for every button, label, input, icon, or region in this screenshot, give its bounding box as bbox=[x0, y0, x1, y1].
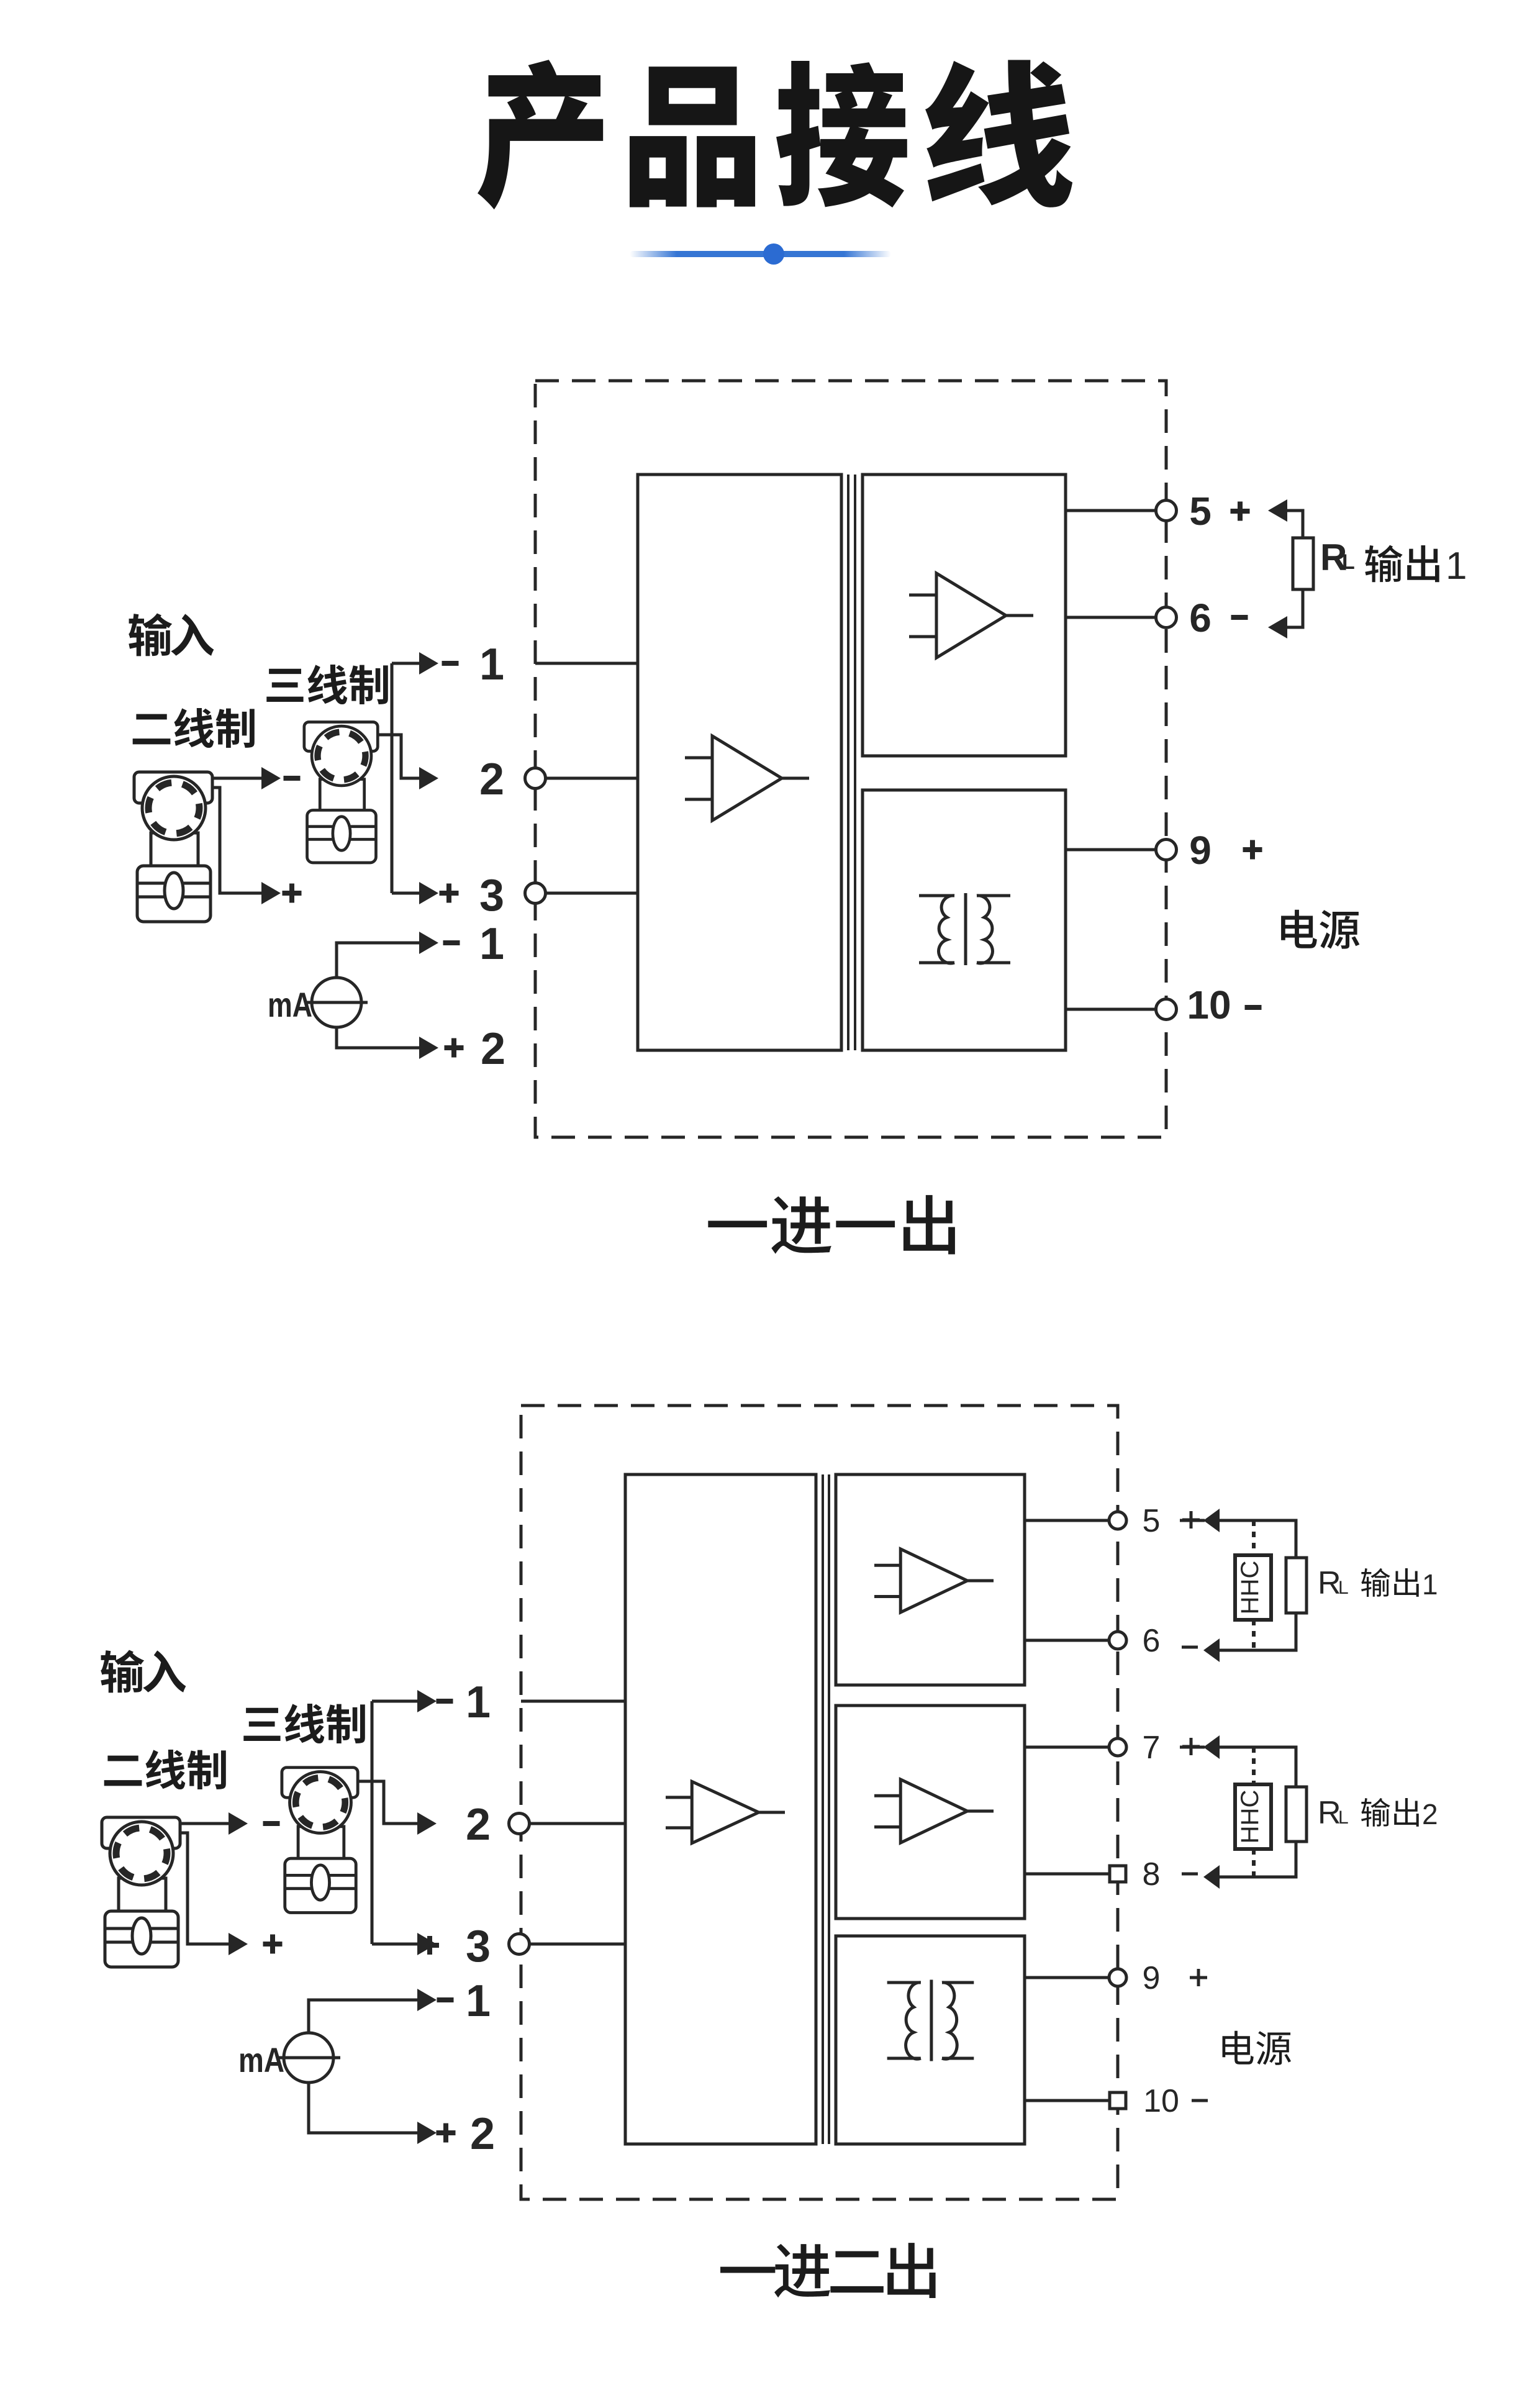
arrow output1 plus (upper) bbox=[1268, 499, 1287, 522]
arrow lead2 bbox=[419, 767, 438, 789]
terminal 2 circle (upper) bbox=[525, 768, 546, 789]
title char 品 bbox=[630, 66, 755, 207]
wire three-wire lead1 (lower) bbox=[372, 1700, 419, 1703]
plus sign lead3 bbox=[440, 891, 459, 896]
wire terminal3 to input block bbox=[535, 892, 638, 895]
transformer power isolation (lower) bbox=[887, 1979, 974, 2061]
plus sign two-wire bbox=[283, 891, 302, 896]
svg-text:1: 1 bbox=[466, 1976, 491, 2026]
arrow two-wire plus (lower) bbox=[229, 1933, 248, 1955]
mA current source circle (upper) bbox=[306, 978, 368, 1027]
upper isolator dashed enclosure bbox=[535, 381, 1166, 1137]
svg-text:2: 2 bbox=[1422, 1798, 1438, 1830]
svg-text:8: 8 bbox=[1143, 1856, 1161, 1892]
blue divider dot bbox=[763, 243, 784, 265]
wire three-wire lead 2 bbox=[376, 735, 420, 778]
arrow lead3 (lower) bbox=[417, 1933, 437, 1955]
terminal 5 circle (upper) bbox=[1156, 501, 1177, 521]
op-amp input stage (lower) bbox=[666, 1781, 785, 1843]
wire three-wire transmitter bus bbox=[391, 663, 394, 893]
wire mA source bottom lead bbox=[337, 1027, 420, 1048]
op-amp output1 stage (lower) bbox=[874, 1549, 994, 1612]
plus mA (lower) bbox=[437, 2130, 456, 2135]
title char 线 bbox=[925, 60, 1072, 207]
svg-text:L: L bbox=[1342, 550, 1355, 574]
upper input amplifier block bbox=[638, 475, 841, 1050]
svg-text:7: 7 bbox=[1143, 1730, 1161, 1766]
terminal 6 circle (upper) bbox=[1156, 607, 1177, 628]
label 二线制 two-wire (upper) bbox=[133, 708, 255, 748]
arrow mA minus (lower) bbox=[417, 1989, 437, 2011]
blue divider line bbox=[630, 251, 891, 257]
wire terminal2 to block (lower) bbox=[521, 1822, 625, 1825]
svg-text:mA: mA bbox=[268, 985, 312, 1024]
wire three-wire lead3 (lower) bbox=[372, 1943, 419, 1946]
terminal 9 circle (upper) bbox=[1156, 840, 1177, 860]
minus two-wire (lower) bbox=[263, 1821, 280, 1826]
upper power block bbox=[863, 790, 1066, 1050]
plus terminal7 (lower) bbox=[1182, 1745, 1200, 1748]
svg-text:1: 1 bbox=[479, 640, 504, 689]
arrow output1 plus (lower) bbox=[1203, 1509, 1220, 1532]
svg-text:1: 1 bbox=[1446, 545, 1467, 588]
wire output1 load bottom (lower) bbox=[1220, 1613, 1296, 1650]
wire block to terminal 9 (lower) bbox=[1025, 1976, 1118, 1979]
title char 产 bbox=[478, 60, 603, 209]
minus sign lead1 bbox=[442, 661, 459, 666]
terminal 5 circle (lower) bbox=[1109, 1512, 1126, 1529]
arrow output1 minus (lower) bbox=[1203, 1638, 1220, 1662]
plus terminal5 (lower) bbox=[1182, 1519, 1200, 1522]
wire output1 load top bbox=[1284, 511, 1303, 538]
label 三线制 three-wire (lower) bbox=[243, 1704, 365, 1743]
wire block to terminal 8 (lower) bbox=[1025, 1873, 1118, 1876]
svg-text:1: 1 bbox=[466, 1678, 491, 1727]
svg-text:10: 10 bbox=[1143, 2083, 1179, 2119]
svg-text:2: 2 bbox=[466, 1800, 491, 1850]
plus sign terminal5 bbox=[1231, 509, 1250, 514]
wire output2 load top (lower) bbox=[1220, 1747, 1296, 1787]
wire output2 load bottom (lower) bbox=[1220, 1842, 1296, 1877]
arrow mA plus bbox=[419, 1037, 438, 1059]
minus mA (lower) bbox=[437, 1997, 454, 2002]
terminal 8 square (lower) bbox=[1110, 1866, 1126, 1882]
terminal 3 circle (upper) bbox=[525, 883, 546, 904]
terminal 6 circle (lower) bbox=[1109, 1632, 1126, 1649]
wire terminal2 to input block bbox=[535, 777, 638, 780]
svg-text:3: 3 bbox=[479, 871, 504, 920]
op-amp output2 stage (lower) bbox=[874, 1779, 994, 1843]
arrow output2 plus (lower) bbox=[1203, 1735, 1220, 1759]
wire output1 load top (lower) bbox=[1220, 1520, 1296, 1558]
label 二线制 two-wire (lower) bbox=[104, 1750, 226, 1789]
wire block to terminal 6 (lower) bbox=[1025, 1639, 1118, 1642]
minus sign two-wire bbox=[284, 776, 301, 781]
transformer power isolation (upper) bbox=[919, 893, 1010, 965]
terminal 9 circle (lower) bbox=[1109, 1969, 1126, 1986]
terminal 3 circle (lower) bbox=[509, 1934, 530, 1955]
wire block to terminal 7 (lower) bbox=[1025, 1746, 1118, 1749]
minus sign terminal10 bbox=[1245, 1005, 1262, 1010]
caption 一进一出 one-in-one-out bbox=[708, 1195, 955, 1254]
wire two-wire transmitter minus lead bbox=[212, 777, 263, 780]
wire mA source top lead bbox=[337, 943, 420, 978]
svg-text:2: 2 bbox=[481, 1024, 505, 1074]
op-amp input stage (upper) bbox=[685, 736, 809, 820]
wire mA top lead (lower) bbox=[309, 2000, 419, 2033]
wire power block to terminal 9 bbox=[1066, 848, 1166, 852]
terminal 10 circle (upper) bbox=[1156, 999, 1177, 1020]
arrow lead2 (lower) bbox=[417, 1812, 437, 1835]
arrow lead3 bbox=[419, 882, 438, 904]
svg-text:6: 6 bbox=[1143, 1623, 1161, 1659]
label 输入 input (upper) bbox=[129, 613, 214, 656]
three-wire transmitter (lower) bbox=[282, 1768, 358, 1913]
svg-text:10: 10 bbox=[1187, 983, 1231, 1027]
plus terminal9 (lower) bbox=[1190, 1976, 1207, 1979]
two-wire transmitter (upper) bbox=[134, 772, 212, 922]
HHC meter box output2 bbox=[1235, 1784, 1271, 1849]
svg-text:1: 1 bbox=[479, 919, 504, 969]
minus terminal10 (lower) bbox=[1192, 2099, 1208, 2102]
upper output block bbox=[863, 475, 1066, 756]
arrow two-wire minus (lower) bbox=[229, 1812, 248, 1835]
plus sign terminal9 bbox=[1243, 847, 1262, 852]
arrow two-wire minus bbox=[261, 767, 281, 789]
arrow mA minus bbox=[419, 932, 438, 954]
minus terminal8 (lower) bbox=[1182, 1873, 1198, 1876]
svg-text:5: 5 bbox=[1189, 489, 1212, 534]
resistor RL output1 bbox=[1293, 538, 1313, 589]
label 电源 power (upper) bbox=[1281, 910, 1359, 949]
svg-text:9: 9 bbox=[1143, 1960, 1161, 1996]
minus lead1 (lower) bbox=[437, 1699, 453, 1704]
plus lead3 (lower) bbox=[420, 1943, 439, 1948]
upper isolation barrier double line bbox=[848, 475, 855, 1050]
minus sign terminal6 bbox=[1231, 615, 1248, 620]
wire three-wire lead 3 bbox=[392, 892, 420, 895]
wire three-wire lead2 (lower) bbox=[359, 1781, 419, 1824]
svg-text:5: 5 bbox=[1143, 1503, 1161, 1539]
lower input amplifier block bbox=[625, 1474, 816, 2144]
svg-text:2: 2 bbox=[470, 2109, 495, 2159]
wire output1 load bottom bbox=[1284, 589, 1303, 627]
wire terminal1 to input block bbox=[535, 662, 638, 665]
label 输出2 (lower) bbox=[1361, 1798, 1419, 1827]
wire two-wire transmitter plus lead (lower) bbox=[180, 1833, 230, 1944]
svg-text:L: L bbox=[1338, 1807, 1349, 1828]
wire three-wire lead 1 bbox=[392, 662, 420, 665]
HHC meter output1 connection dashes bbox=[1252, 1520, 1256, 1650]
svg-text:R: R bbox=[1318, 1565, 1341, 1601]
wire output block to terminal 6 bbox=[1066, 616, 1166, 619]
svg-text:2: 2 bbox=[479, 755, 504, 804]
wire terminal3 to block (lower) bbox=[521, 1943, 625, 1946]
lower isolator dashed enclosure bbox=[521, 1406, 1118, 2199]
lower output2 block bbox=[836, 1706, 1025, 1919]
title char 接 bbox=[776, 61, 907, 207]
wire mA bottom lead (lower) bbox=[309, 2083, 419, 2133]
plus two-wire (lower) bbox=[263, 1942, 283, 1947]
plus sign mA bbox=[445, 1045, 464, 1050]
arrow lead1 bbox=[419, 652, 438, 675]
caption 一进二出 one-in-two-out bbox=[720, 2243, 936, 2298]
wire block to terminal 10 (lower) bbox=[1025, 2099, 1118, 2102]
terminal 2 circle (lower) bbox=[509, 1814, 530, 1834]
resistor RL output2 (lower) bbox=[1286, 1787, 1307, 1842]
arrow mA plus (lower) bbox=[417, 2122, 437, 2144]
label 三线制 three-wire (upper) bbox=[266, 665, 388, 704]
mA current source circle (lower) bbox=[277, 2033, 340, 2083]
wire block to terminal 5 (lower) bbox=[1025, 1519, 1118, 1522]
minus terminal6 (lower) bbox=[1182, 1646, 1198, 1649]
arrow lead1 (lower) bbox=[417, 1690, 437, 1712]
svg-text:HHC: HHC bbox=[1236, 1790, 1264, 1844]
arrow output2 minus (lower) bbox=[1203, 1865, 1220, 1889]
svg-text:9: 9 bbox=[1189, 828, 1212, 873]
svg-text:3: 3 bbox=[466, 1922, 491, 1971]
svg-text:1: 1 bbox=[1422, 1568, 1438, 1601]
wire two-wire transmitter minus lead (lower) bbox=[180, 1822, 230, 1825]
wire output block to terminal 5 bbox=[1066, 509, 1166, 512]
lower isolation barrier double line bbox=[823, 1474, 829, 2144]
lower power block bbox=[836, 1936, 1025, 2144]
label 电源 power (lower) bbox=[1223, 2031, 1291, 2065]
terminal 10 square (lower) bbox=[1110, 2092, 1126, 2109]
svg-text:L: L bbox=[1338, 1578, 1349, 1598]
svg-text:6: 6 bbox=[1189, 596, 1212, 640]
svg-text:HHC: HHC bbox=[1236, 1561, 1264, 1615]
lower output1 block bbox=[836, 1474, 1025, 1685]
arrow output1 minus (upper) bbox=[1268, 616, 1287, 638]
minus sign mA bbox=[443, 940, 460, 945]
op-amp output stage (upper) bbox=[909, 573, 1033, 658]
HHC meter box output1 bbox=[1235, 1555, 1271, 1620]
wire power block to terminal 10 bbox=[1066, 1008, 1166, 1011]
svg-text:mA: mA bbox=[238, 2040, 284, 2079]
HHC meter output2 connection dashes bbox=[1252, 1747, 1256, 1877]
label 输入 input (lower) bbox=[101, 1650, 186, 1692]
svg-text:R: R bbox=[1318, 1795, 1341, 1831]
two-wire transmitter (lower) bbox=[102, 1817, 180, 1967]
wire three-wire bus (lower) bbox=[371, 1701, 374, 1944]
terminal 7 circle (lower) bbox=[1109, 1738, 1126, 1756]
wire terminal1 to block (lower) bbox=[521, 1700, 625, 1703]
label 输出1 output1 (upper) bbox=[1365, 545, 1439, 583]
three-wire transmitter (upper) bbox=[304, 722, 378, 863]
arrow two-wire plus bbox=[261, 882, 281, 904]
resistor RL output1 (lower) bbox=[1286, 1558, 1307, 1613]
wire two-wire transmitter plus lead bbox=[212, 788, 263, 893]
label 输出1 (lower) bbox=[1361, 1568, 1419, 1597]
